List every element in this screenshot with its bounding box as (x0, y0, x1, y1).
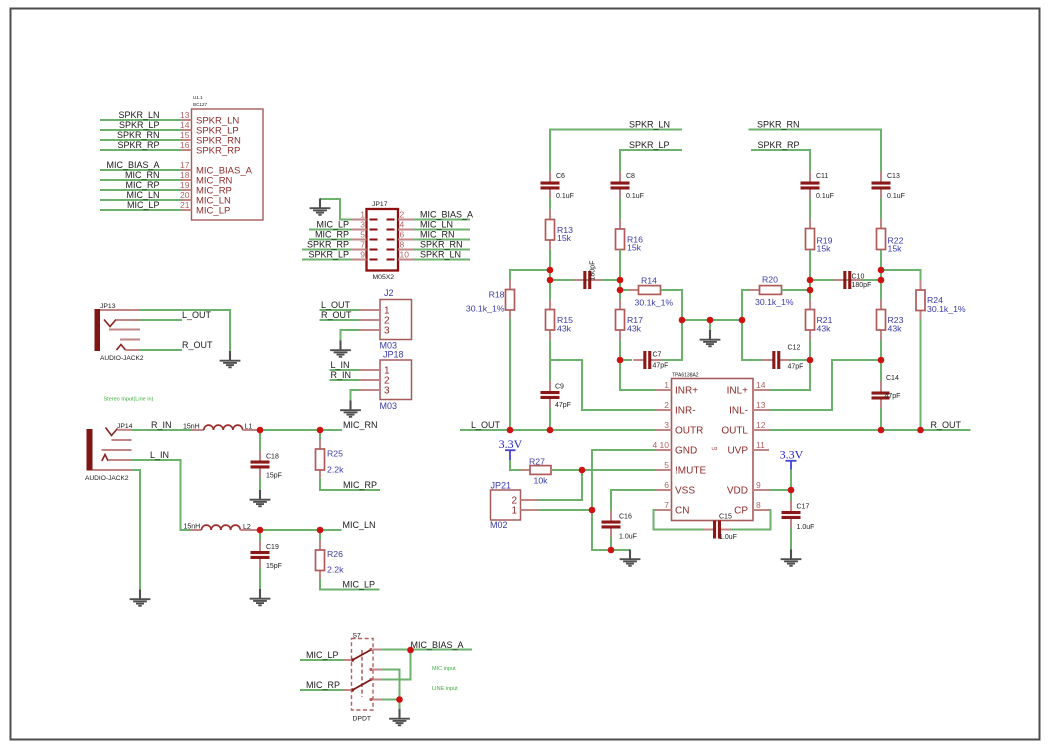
pin 8 (398, 240, 414, 250)
svg-text:15k: 15k (627, 243, 642, 253)
wire VDD to supply (769, 489, 791, 491)
svg-text:MIC_LP: MIC_LP (127, 200, 160, 210)
svg-text:30.1k_1%: 30.1k_1% (755, 297, 794, 307)
wire SPKR_RN (414, 249, 470, 251)
wire L_IN (330, 369, 361, 371)
svg-text:R_OUT: R_OUT (182, 340, 213, 350)
connector JP17 M05X2 (367, 201, 399, 281)
resistor R19 15k (806, 219, 833, 260)
svg-text:3: 3 (664, 420, 669, 430)
svg-text:1.0uF: 1.0uF (719, 534, 737, 541)
pin 2 (360, 319, 380, 321)
svg-text:!MUTE: !MUTE (675, 466, 706, 477)
wire R19 to R21 (809, 250, 811, 300)
wire GND to JP17 pin 1 (320, 199, 351, 220)
svg-text:C7: C7 (653, 352, 662, 359)
wire R13 node to C5 (550, 279, 620, 281)
wire MIC_RN node (260, 429, 342, 431)
svg-text:15k: 15k (557, 233, 572, 243)
svg-text:MIC_LN: MIC_LN (126, 190, 159, 200)
svg-text:INR+: INR+ (675, 386, 698, 397)
svg-text:43k: 43k (557, 324, 572, 334)
junction (917, 427, 924, 434)
junction (807, 277, 814, 284)
wire INR+ node to pin 1 (620, 360, 656, 390)
svg-text:3: 3 (384, 326, 390, 337)
svg-text:43k: 43k (888, 324, 903, 334)
resistor R24 30.1k_1% (916, 280, 966, 321)
svg-text:4: 4 (400, 220, 405, 230)
svg-text:30.1k_1%: 30.1k_1% (635, 298, 674, 308)
junction (317, 427, 324, 434)
wire SPKR_RP (302, 249, 351, 251)
wire R14 to ground node (661, 290, 683, 320)
svg-text:C8: C8 (626, 173, 635, 180)
pin 3 (360, 389, 380, 391)
pin S7 throw 2 (373, 669, 382, 671)
svg-text:SPKR_LP: SPKR_LP (119, 120, 160, 130)
wire R_IN to L1 (132, 429, 192, 431)
wire R16 to R17 (619, 250, 621, 301)
pin 18 (180, 170, 191, 180)
wire L_IN to L2 (132, 460, 191, 530)
wire SPKR_LN (414, 259, 470, 261)
pin 17 (180, 160, 191, 170)
wire MIC_BIAS_A (414, 219, 470, 221)
svg-text:19: 19 (180, 180, 190, 190)
wire to ground (709, 320, 711, 331)
wire R26 to MIC_LP (320, 579, 380, 590)
pin 7 (351, 240, 367, 250)
svg-text:L2: L2 (243, 524, 251, 531)
wire ground rail to R20 (742, 290, 760, 320)
wire L2 to C19 (259, 530, 261, 542)
svg-text:47pF: 47pF (555, 402, 571, 409)
wire 3.3V to R27 (510, 460, 521, 470)
svg-text:SPKR_RN: SPKR_RN (420, 240, 463, 250)
svg-text:13: 13 (180, 110, 190, 120)
junction (407, 647, 414, 654)
wire C16 to ground (610, 537, 612, 550)
pin 1 (521, 509, 539, 511)
wire JP14 sleeve to ground (132, 470, 141, 590)
junction (617, 287, 624, 294)
pin 1 (351, 210, 367, 220)
wire R13 to R15 (549, 250, 551, 301)
capacitor C6 0.1uF (541, 172, 574, 201)
wire C17 to ground (790, 528, 792, 551)
capacitor C14 47pF (872, 375, 901, 410)
svg-text:2: 2 (400, 210, 405, 220)
svg-text:C14: C14 (886, 375, 899, 382)
wire R18 to L_OUT (509, 319, 511, 431)
svg-text:VDD: VDD (727, 486, 748, 497)
svg-text:MIC_LP: MIC_LP (196, 206, 230, 217)
svg-text:21: 21 (180, 200, 190, 210)
junction (608, 547, 615, 554)
connector JP21 M02 (490, 481, 521, 531)
svg-text:SPKR_RN: SPKR_RN (757, 120, 800, 130)
pin 13 (753, 400, 769, 410)
svg-text:MIC_RP: MIC_RP (315, 230, 349, 240)
resistor R16 15k (616, 219, 644, 260)
svg-text:INL-: INL- (729, 406, 748, 417)
connector JP14 AUDIO-JACK2 (85, 423, 133, 482)
wire MIC_LN node (260, 529, 342, 531)
junction (547, 427, 554, 434)
svg-text:SPKR_LN: SPKR_LN (629, 120, 670, 130)
svg-text:CP: CP (734, 506, 748, 517)
wire MIC_LN (414, 229, 470, 231)
svg-text:9: 9 (360, 250, 365, 260)
svg-text:3: 3 (384, 386, 390, 397)
wire INR+ node to C7 (620, 359, 632, 361)
wire R23 to C14 node (880, 340, 882, 393)
svg-text:5: 5 (664, 460, 669, 470)
svg-text:SPKR_RN: SPKR_RN (117, 130, 160, 140)
resistor R15 43k (546, 300, 574, 341)
wire throw 2 to ground (382, 670, 400, 700)
wire MIC_RP (309, 239, 351, 241)
svg-text:MIC_LN: MIC_LN (343, 520, 376, 530)
ground (389, 709, 410, 725)
wire R17 to C7 node (619, 340, 621, 361)
svg-text:JP18: JP18 (383, 350, 404, 360)
wire C19 to ground (259, 568, 261, 589)
svg-text:M02: M02 (490, 520, 508, 530)
junction (878, 277, 885, 284)
svg-text:6: 6 (400, 230, 405, 240)
svg-text:SPKR_RP: SPKR_RP (758, 140, 800, 150)
resistor R23 43k (877, 300, 904, 341)
wire C11 to R19 (809, 198, 811, 220)
svg-text:14: 14 (756, 380, 766, 390)
wire SPKR_LN (550, 130, 682, 173)
svg-text:SPKR_LN: SPKR_LN (420, 250, 461, 260)
wire MIC_RP (300, 689, 343, 691)
pin S7 throw 3 (373, 679, 382, 681)
resistor R17 43k (616, 300, 644, 341)
capacitor C11 0.1uF (801, 172, 834, 201)
wire CN to C15 (654, 510, 704, 530)
svg-text:1: 1 (664, 380, 669, 390)
pin S7 throw 4 (373, 699, 382, 701)
svg-text:R_OUT: R_OUT (321, 310, 352, 320)
ground (700, 330, 721, 346)
wire MIC_RN to R25 (319, 430, 321, 442)
svg-text:R14: R14 (641, 276, 657, 286)
svg-text:U3: U3 (712, 446, 718, 451)
resistor R22 15k (877, 219, 904, 260)
connector JP13 AUDIO-JACK2 (95, 303, 144, 362)
wire R_IN (330, 379, 361, 381)
svg-text:15: 15 (180, 130, 190, 140)
svg-text:MIC_RP: MIC_RP (125, 180, 159, 190)
wire INL+ node to pin 14 (769, 360, 810, 390)
capacitor C7 47pF (633, 351, 668, 369)
IC U1.1 BC127 (192, 95, 264, 220)
resistor R13 15k (546, 210, 574, 251)
wire C15 to CP (731, 510, 771, 530)
capacitor C19 15pF (251, 541, 282, 570)
wire SPKR_LP (620, 150, 682, 172)
resistor R20 30.1k_1% (750, 275, 794, 308)
capacitor C10 180pF (833, 271, 871, 289)
pin 5 (656, 460, 672, 470)
wire SPKR_LP (302, 259, 351, 261)
wire supply to VDD node (790, 470, 792, 491)
svg-text:R26: R26 (327, 549, 343, 559)
wire SPKR_RP (751, 150, 810, 172)
pin 11 (753, 440, 769, 450)
wire INL- branch (769, 360, 881, 410)
svg-text:2.2k: 2.2k (327, 565, 344, 575)
wire MIC_LP (300, 659, 343, 661)
svg-text:10k: 10k (534, 476, 549, 486)
svg-text:SPKR_LP: SPKR_LP (308, 250, 349, 260)
wire C8 to R16 (619, 198, 621, 220)
svg-text:L_IN: L_IN (331, 360, 350, 370)
svg-text:C11: C11 (816, 173, 828, 180)
svg-text:DPDT: DPDT (353, 716, 372, 723)
resistor R26 2.2k (316, 540, 345, 581)
svg-text:LINE input: LINE input (432, 686, 458, 692)
svg-text:SPKR_RP: SPKR_RP (307, 240, 349, 250)
svg-text:SPKR_LN: SPKR_LN (118, 110, 159, 120)
junction (396, 696, 403, 703)
resistor R27 10k (521, 456, 561, 485)
svg-text:14: 14 (180, 120, 190, 130)
wire INR- branch (550, 360, 656, 410)
wire R27 to !MUTE (551, 469, 656, 471)
junction (807, 287, 814, 294)
junction (257, 427, 264, 434)
svg-text:R_OUT: R_OUT (931, 420, 962, 430)
pin S7 pole 1 (343, 659, 352, 661)
pin 19 (180, 180, 191, 190)
junction (547, 277, 554, 284)
junction (617, 357, 624, 364)
svg-text:C9: C9 (555, 384, 564, 391)
wire VDD node to C17 (790, 490, 792, 502)
wire analog ground rail (682, 319, 742, 321)
svg-text:1: 1 (511, 506, 517, 517)
capacitor C18 15pF (251, 451, 282, 480)
svg-text:C18: C18 (266, 454, 279, 461)
ground (220, 351, 241, 367)
svg-text:CN: CN (675, 506, 689, 517)
svg-text:MIC_LP: MIC_LP (306, 650, 339, 660)
wire throw 3 to MIC_BIAS_A (382, 650, 411, 680)
pin 10 (398, 250, 414, 260)
wire ground rail to C12 (742, 320, 763, 360)
capacitor C13 0.1uF (872, 172, 905, 201)
svg-text:MIC input: MIC input (432, 666, 456, 672)
svg-text:U1.1: U1.1 (193, 95, 203, 100)
wire SPKR_LN (100, 119, 182, 121)
svg-text:43k: 43k (817, 324, 832, 334)
wire JP21 pin 1 to GND net (539, 509, 593, 511)
svg-text:JP17: JP17 (372, 201, 388, 208)
svg-text:MIC_RN: MIC_RN (420, 230, 455, 240)
svg-text:MIC_RP: MIC_RP (343, 480, 377, 490)
IC U3 TPA6138A2 (672, 372, 754, 520)
svg-text:OUTL: OUTL (721, 426, 748, 437)
connector JP18 M03 (380, 350, 412, 411)
resistor R25 2.2k (316, 439, 345, 480)
pin 4/10 (652, 440, 671, 450)
svg-text:JP21: JP21 (491, 481, 512, 491)
pin 9 (351, 250, 367, 260)
wire J2 pin 3 to ground (341, 330, 361, 341)
svg-text:30.1k_1%: 30.1k_1% (466, 304, 505, 314)
junction (878, 357, 885, 364)
svg-text:C17: C17 (797, 504, 810, 511)
wire JP18 pin 3 to ground (351, 390, 361, 401)
wire SPKR_RP (100, 149, 182, 151)
wire C14 to R_OUT (880, 408, 882, 430)
wire R24 to R_OUT (920, 319, 922, 430)
pin 1 (360, 369, 380, 371)
svg-text:MIC_BIAS_A: MIC_BIAS_A (420, 210, 473, 220)
inductor L2 15nH (184, 524, 261, 532)
svg-text:INR-: INR- (675, 406, 696, 417)
ground (781, 550, 802, 566)
svg-text:MIC_LN: MIC_LN (420, 220, 453, 230)
svg-text:L_IN: L_IN (150, 450, 169, 460)
junction (317, 527, 324, 534)
pin 2 (521, 499, 539, 501)
wire C6 to R13 (549, 198, 551, 210)
svg-text:C13: C13 (887, 173, 900, 180)
svg-text:J2: J2 (384, 288, 394, 298)
svg-text:47pF: 47pF (788, 364, 804, 371)
wire C12 to R21 node (790, 359, 810, 361)
wire C7 to ground rail (661, 320, 682, 360)
wire L1 to C18 (259, 430, 261, 451)
wire R_OUT (140, 349, 182, 351)
inductor L1 15nH (183, 424, 260, 431)
junction (788, 487, 795, 494)
wire SPKR_RN (749, 130, 882, 173)
svg-text:12: 12 (756, 420, 766, 430)
svg-text:TPA6138A2: TPA6138A2 (672, 372, 699, 378)
wire R21 to C12 node (809, 340, 811, 361)
svg-text:C15: C15 (719, 514, 732, 521)
wire L_OUT to OUTR (460, 429, 656, 431)
junction (547, 267, 554, 274)
svg-text:MIC_LP: MIC_LP (343, 580, 376, 590)
junction (707, 317, 714, 324)
svg-text:16: 16 (180, 140, 190, 150)
svg-text:180pF: 180pF (852, 282, 872, 289)
resistor R14 30.1k_1% (629, 276, 673, 308)
svg-text:L_OUT: L_OUT (182, 310, 212, 320)
junction (807, 357, 814, 364)
wire R16 node to R14 (620, 289, 639, 291)
svg-text:5: 5 (360, 230, 365, 240)
svg-text:GND: GND (675, 446, 697, 457)
wire MIC_RP (100, 189, 182, 191)
svg-text:C12: C12 (788, 344, 801, 351)
svg-text:3.3V: 3.3V (499, 437, 523, 451)
wire MIC_BIAS_A (382, 649, 473, 651)
svg-text:1.0uF: 1.0uF (797, 524, 815, 531)
svg-text:S7: S7 (353, 632, 362, 639)
svg-text:MIC_LP: MIC_LP (316, 220, 349, 230)
wire R22 to R23 (880, 250, 882, 300)
pin 6 (656, 480, 672, 490)
ground (250, 589, 271, 605)
svg-text:R20: R20 (762, 275, 778, 285)
wire R_OUT (320, 319, 361, 321)
svg-text:7: 7 (664, 500, 669, 510)
wire OUTL to R_OUT (769, 429, 971, 431)
svg-text:11: 11 (756, 440, 765, 450)
wire MIC_RN (414, 239, 470, 241)
capacitor C9 47pF (541, 381, 571, 409)
junction (589, 507, 596, 514)
capacitor 180pF (573, 261, 601, 289)
svg-text:Stereo Input(Line in): Stereo Input(Line in) (104, 397, 154, 403)
svg-text:MIC_BIAS_A: MIC_BIAS_A (411, 640, 464, 650)
wire to ground (399, 700, 401, 710)
pin 14 (180, 120, 191, 130)
svg-text:SPKR_LP: SPKR_LP (629, 140, 670, 150)
svg-text:8: 8 (400, 240, 405, 250)
svg-text:SPKR_RP: SPKR_RP (117, 140, 159, 150)
wire VSS to C16 (611, 490, 656, 512)
svg-text:43k: 43k (627, 324, 642, 334)
svg-text:L_OUT: L_OUT (321, 300, 351, 310)
svg-text:MIC_BIAS_A: MIC_BIAS_A (106, 160, 159, 170)
pin 21 (180, 200, 191, 210)
ground (340, 401, 361, 417)
svg-text:9: 9 (756, 480, 761, 490)
svg-text:15nH: 15nH (184, 524, 201, 531)
wire MIC_RN (100, 179, 182, 181)
pin 13 (180, 110, 191, 120)
svg-text:R_IN: R_IN (151, 420, 172, 430)
pin 3 (656, 420, 672, 430)
svg-text:18: 18 (180, 170, 190, 180)
junction (257, 527, 264, 534)
svg-text:MIC_RN: MIC_RN (343, 420, 378, 430)
pin 2 (656, 400, 672, 410)
wire JP13 sleeve to ground (140, 310, 230, 352)
junction (617, 277, 624, 284)
pin 2 (360, 379, 380, 381)
wire MIC_LN (100, 199, 182, 201)
resistor R18 30.1k_1% (466, 280, 515, 321)
wire SPKR_RN (100, 139, 182, 141)
ground (130, 590, 151, 606)
svg-text:VSS: VSS (675, 486, 695, 497)
svg-text:15k: 15k (888, 244, 903, 254)
wire throw 4 to ground (382, 699, 400, 701)
pin 1 (656, 380, 672, 390)
svg-text:0.1uF: 0.1uF (556, 193, 574, 200)
junction (579, 467, 586, 474)
pin 3 (351, 220, 367, 230)
svg-text:R18: R18 (489, 290, 505, 300)
svg-text:AUDIO-JACK2: AUDIO-JACK2 (100, 355, 144, 362)
svg-text:8: 8 (756, 500, 761, 510)
pin 6 (398, 230, 414, 240)
svg-text:R27: R27 (529, 456, 545, 466)
wire R22 node to R24 (881, 270, 921, 281)
wire C13 to R22 (880, 198, 882, 220)
